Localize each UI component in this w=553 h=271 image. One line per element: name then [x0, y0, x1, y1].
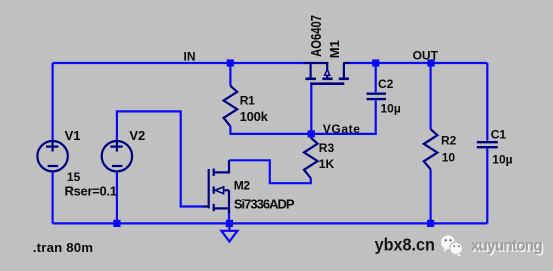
node OUT junction [427, 59, 434, 66]
resistor R3 [304, 138, 318, 179]
wire C1 bottom to ground rail [486, 148, 488, 223]
wire M1 gate drop to VGate [310, 85, 312, 134]
wire V1 top lead [51, 63, 53, 141]
svg-text:M2: M2 [234, 179, 251, 193]
svg-text:V2: V2 [129, 128, 145, 143]
wire R2 bottom to ground rail [430, 169, 432, 223]
node C2 top junction [372, 59, 379, 66]
wire M2 source to ground rail [228, 211, 230, 223]
svg-text:.tran 80m: .tran 80m [33, 240, 93, 255]
resistor R1 [224, 86, 238, 127]
wire R2 top lead from OUT [430, 63, 432, 129]
watermark wechat logo [441, 235, 463, 256]
svg-text:15: 15 [67, 170, 81, 184]
svg-text:100k: 100k [240, 109, 269, 124]
capacitor C2 [367, 94, 386, 99]
svg-text:V1: V1 [65, 128, 81, 143]
svg-text:M1: M1 [327, 40, 342, 58]
ground [221, 223, 237, 241]
wire C1 top lead [486, 63, 488, 141]
svg-text:R2: R2 [441, 133, 457, 147]
node V2 ground junction [113, 220, 120, 227]
svg-text:10µ: 10µ [381, 101, 401, 115]
wire V1 bottom to ground rail [51, 172, 53, 224]
wire C2 top lead [375, 63, 377, 92]
wire M1 drain to OUT rail to C1 [350, 62, 488, 64]
svg-text:OUT: OUT [413, 49, 439, 63]
svg-text:C2: C2 [378, 77, 394, 91]
voltage source V2 [102, 141, 132, 171]
transistor M1 body-diode arrow [325, 69, 330, 75]
svg-text:10: 10 [442, 150, 456, 164]
svg-text:xuyuntong: xuyuntong [471, 237, 543, 254]
svg-text:R1: R1 [240, 93, 255, 107]
voltage source V1 [37, 141, 67, 171]
svg-text:10µ: 10µ [492, 153, 512, 167]
resistor R2 [424, 129, 438, 169]
svg-text:C1: C1 [491, 128, 507, 142]
node IN junction [227, 59, 234, 66]
capacitor C1 [477, 142, 498, 147]
wire IN rail [53, 62, 305, 64]
wire R1 bottom / VGate rail / C2 bottom lead [230, 100, 375, 134]
node R2 ground junction [427, 220, 434, 227]
svg-text:ybx8.cn: ybx8.cn [375, 235, 435, 255]
transistor M1 (PMOS) [304, 63, 350, 78]
M1 channel bars [305, 78, 316, 81]
svg-text:VGate: VGate [323, 122, 361, 136]
svg-text:IN: IN [184, 50, 196, 64]
node M2 source ground junction [226, 220, 233, 227]
svg-text:1K: 1K [319, 157, 335, 171]
wire R1 top lead [229, 63, 231, 86]
svg-text:Si7336ADP: Si7336ADP [234, 196, 295, 211]
M1 gate line [310, 82, 344, 85]
wire R3 top lead [310, 134, 312, 138]
wire ground rail [53, 222, 488, 224]
wire V2 bottom to ground rail [116, 172, 118, 224]
wire V2 top lead to M2 gate [117, 111, 205, 206]
svg-text:AO6407: AO6407 [307, 15, 324, 57]
svg-text:Rser=0.1: Rser=0.1 [65, 183, 117, 198]
wire M2 drain step to R3 bottom [229, 160, 311, 183]
node VGate junction [308, 130, 315, 137]
transistor M2 (NMOS) [204, 160, 229, 213]
transistor M2 source arrow [215, 187, 224, 194]
svg-text:R3: R3 [319, 141, 335, 155]
